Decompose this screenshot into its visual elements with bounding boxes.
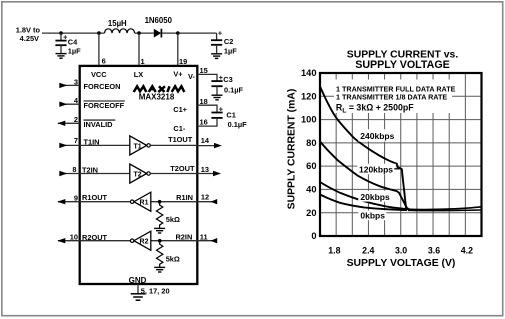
svg-text:MAX3218: MAX3218 (139, 92, 175, 101)
svg-text:V+: V+ (173, 70, 183, 79)
svg-text:3.0: 3.0 (395, 246, 407, 256)
svg-text:14: 14 (201, 136, 210, 145)
svg-text:1: 1 (141, 57, 145, 66)
svg-text:C1-: C1- (173, 124, 185, 133)
svg-text:SUPPLY VOLTAGE (V): SUPPLY VOLTAGE (V) (347, 258, 456, 269)
chart: x axis labels (328, 246, 473, 256)
svg-text:120kbps: 120kbps (359, 165, 393, 175)
svg-text:1N6050: 1N6050 (145, 16, 173, 25)
svg-text:60: 60 (306, 161, 316, 171)
svg-text:T1: T1 (134, 143, 142, 150)
capacitor C1 0.1uF (211, 105, 247, 129)
wire VCC lead pin 6 (98, 33, 100, 65)
svg-text:T1OUT: T1OUT (168, 135, 193, 144)
wire pin3 with input arrow (60, 84, 80, 86)
svg-text:2.4: 2.4 (362, 246, 374, 256)
svg-text:7: 7 (74, 136, 78, 145)
ground (C4) (56, 54, 67, 59)
wire pin8 T2IN with input arrow (60, 173, 130, 175)
wire T1 output (150, 144, 197, 146)
wire V+ lead pin 19 (177, 33, 179, 65)
svg-text:4.25V: 4.25V (20, 34, 39, 43)
svg-text:1µF: 1µF (68, 47, 81, 56)
transmitter T2 buffer (130, 164, 151, 183)
ground (R2 5k) (154, 267, 165, 272)
svg-text:SUPPLY CURRENT (mA): SUPPLY CURRENT (mA) (287, 89, 298, 210)
svg-text:19: 19 (179, 57, 187, 66)
svg-text:240kbps: 240kbps (360, 131, 394, 141)
chart: curve 0kbps (320, 195, 407, 211)
chart: axes box (320, 73, 482, 236)
svg-text:100: 100 (301, 115, 317, 125)
ground (C3) (212, 95, 223, 100)
svg-text:4.2: 4.2 (461, 246, 473, 256)
svg-text:R2IN: R2IN (175, 233, 192, 242)
chart: legend white background (334, 80, 452, 114)
wire LX lead pin 1 (138, 33, 140, 65)
wire pin2 with output arrow (58, 122, 80, 124)
svg-text:LX: LX (134, 70, 144, 79)
receiver R1 buffer (80, 201, 131, 203)
svg-text:+: + (218, 28, 222, 37)
svg-text:FORCEOFF: FORCEOFF (84, 101, 125, 110)
svg-text:15µH: 15µH (108, 19, 127, 28)
chart: grid (320, 73, 482, 236)
svg-text:C1+: C1+ (173, 105, 187, 114)
wire top supply rail (42, 32, 217, 34)
chart: y axis labels (301, 68, 317, 241)
chart: merged tail lower (408, 209, 481, 212)
wire T2 output (150, 173, 197, 175)
svg-text:5kΩ: 5kΩ (166, 255, 180, 264)
chart: curve 240kbps (320, 87, 409, 210)
svg-text:120: 120 (301, 91, 317, 101)
svg-text:9: 9 (74, 193, 78, 202)
transmitter T1 buffer (130, 136, 151, 155)
capacitor C3 0.1uF (211, 73, 243, 94)
resistor 5k (R2IN pulldown) (157, 241, 180, 268)
svg-text:C3: C3 (223, 75, 232, 84)
svg-text:C2: C2 (224, 37, 233, 46)
wire pin7 T1IN with input arrow (60, 144, 130, 146)
chart: curve 20kbps (320, 182, 408, 209)
svg-text:1µF: 1µF (224, 46, 237, 55)
wire pin13 with output arrow (197, 173, 213, 175)
svg-text:140: 140 (301, 68, 317, 78)
wire pin4 with input arrow (60, 103, 80, 105)
wire GND lead (137, 284, 139, 293)
svg-text:5kΩ: 5kΩ (166, 215, 180, 224)
wire pin11 with input arrow (pointing left) (197, 240, 217, 242)
svg-text:20: 20 (306, 208, 316, 218)
svg-text:INVALID: INVALID (84, 120, 114, 129)
svg-text:T2IN: T2IN (82, 166, 98, 175)
wire pin16 from C1 bottom (197, 118, 217, 126)
svg-text:40: 40 (306, 185, 316, 195)
svg-text:1 TRANSMITTER 1/8 DATA RATE: 1 TRANSMITTER 1/8 DATA RATE (336, 92, 447, 101)
svg-text:FORCEON: FORCEON (84, 82, 121, 91)
capacitor C2 1uF (211, 28, 237, 55)
ground (C2) (211, 54, 222, 59)
ground (R1 5k) (154, 228, 165, 233)
node junction dots on rail (59, 31, 63, 35)
svg-text:0.1µF: 0.1µF (224, 85, 244, 94)
svg-text:3.6: 3.6 (428, 246, 440, 256)
svg-text:13: 13 (201, 165, 209, 174)
node junction R2IN (158, 239, 162, 243)
wire pin12 with input arrow (pointing left) (197, 201, 217, 203)
chart: merged tail upper (406, 207, 481, 210)
svg-text:V-: V- (188, 72, 196, 81)
svg-text:0kbps: 0kbps (360, 211, 385, 221)
wire pin10 R2OUT with output arrow (58, 240, 80, 242)
svg-text:0: 0 (311, 231, 316, 241)
svg-text:+: + (219, 105, 223, 114)
receiver R2 buffer (80, 240, 131, 242)
svg-text:SUPPLY VOLTAGE: SUPPLY VOLTAGE (355, 59, 450, 71)
capacitor C4 1uF (55, 33, 81, 56)
svg-text:C1: C1 (226, 111, 235, 120)
svg-text:R1IN: R1IN (176, 193, 193, 202)
svg-text:1.8V to: 1.8V to (16, 25, 41, 34)
svg-text:R1OUT: R1OUT (82, 193, 108, 202)
svg-text:T2OUT: T2OUT (170, 164, 195, 173)
svg-text:R2: R2 (140, 239, 149, 246)
chart: curve 120kbps (320, 142, 407, 209)
svg-text:C4: C4 (68, 37, 78, 46)
op-amp U1 MAX3218 chip body (80, 66, 198, 284)
svg-text:80: 80 (306, 138, 316, 148)
svg-text:+: + (63, 33, 67, 42)
svg-text:VCC: VCC (91, 70, 107, 79)
wire pin9 R1OUT with output arrow (58, 201, 80, 203)
wire pin15 to C3 (197, 74, 217, 80)
svg-text:T2: T2 (134, 172, 142, 179)
ground (GND main) (131, 294, 146, 300)
wire pin18 to C1 (197, 105, 217, 112)
svg-text:R1: R1 (140, 200, 149, 207)
node junction R1IN (158, 200, 162, 204)
chart: curve label backgrounds (358, 129, 397, 141)
wire pin14 with output arrow (197, 145, 214, 147)
svg-text:20kbps: 20kbps (360, 192, 390, 202)
resistor 5k (R1IN pulldown) (156, 202, 180, 229)
svg-text:T1IN: T1IN (84, 137, 100, 146)
svg-text:1.8: 1.8 (328, 246, 340, 256)
svg-text:12: 12 (201, 192, 209, 201)
op-amp U1 MAXIM logo (134, 86, 185, 92)
svg-text:8: 8 (72, 165, 76, 174)
svg-text:6: 6 (102, 57, 106, 66)
svg-text:GND: GND (129, 276, 147, 285)
svg-text:16: 16 (200, 118, 208, 127)
svg-text:0.1µF: 0.1µF (228, 120, 248, 129)
